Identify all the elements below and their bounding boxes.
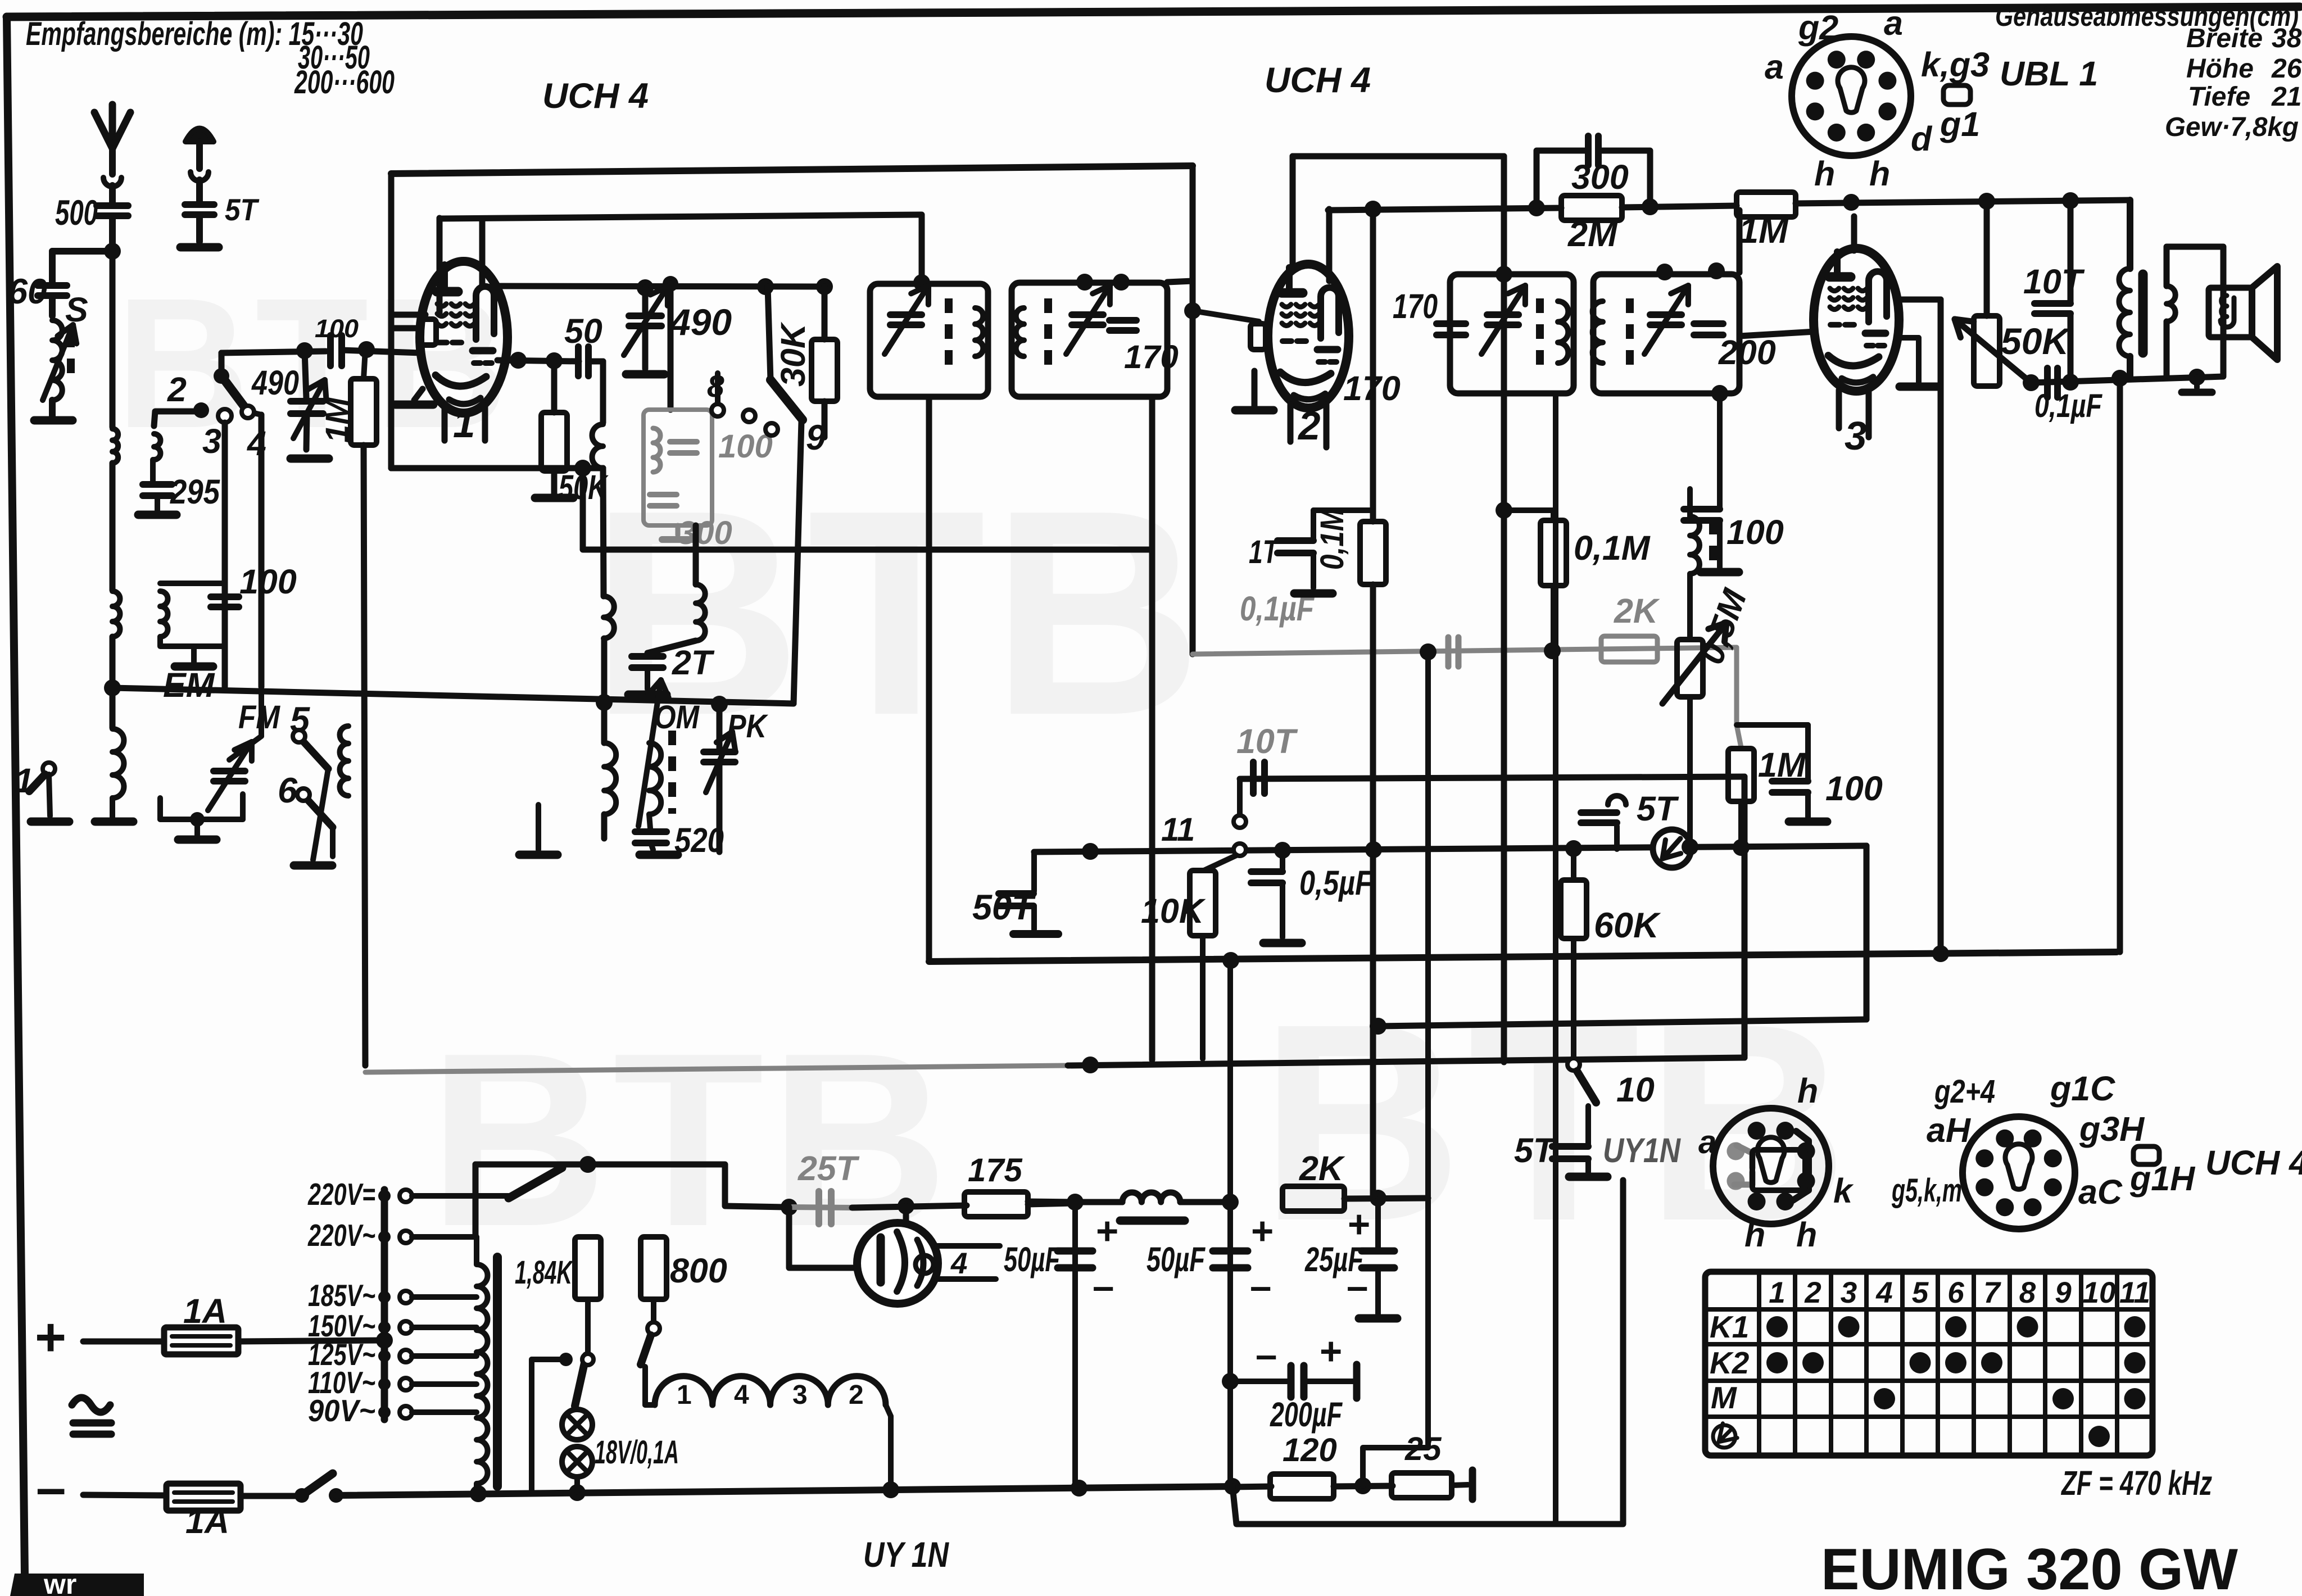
- svg-text:Gew·7,8kg: Gew·7,8kg: [2165, 112, 2299, 142]
- svg-text:500: 500: [55, 193, 98, 233]
- svg-text:220V~: 220V~: [307, 1218, 375, 1253]
- svg-text:OM: OM: [654, 699, 700, 736]
- svg-text:+: +: [35, 1307, 66, 1367]
- svg-text:6: 6: [278, 771, 298, 810]
- svg-text:8: 8: [2019, 1276, 2036, 1309]
- svg-text:2M: 2M: [1567, 215, 1618, 254]
- svg-text:4: 4: [734, 1380, 749, 1410]
- svg-text:0,1µF: 0,1µF: [2034, 388, 2102, 424]
- svg-text:g2+4: g2+4: [1934, 1073, 1995, 1110]
- svg-text:0,1M: 0,1M: [1314, 507, 1351, 570]
- svg-text:+: +: [1320, 1330, 1342, 1373]
- svg-text:h: h: [1796, 1216, 1817, 1254]
- svg-text:g3H: g3H: [2079, 1110, 2145, 1148]
- svg-text:k: k: [1833, 1172, 1854, 1210]
- svg-text:–: –: [1256, 1333, 1277, 1376]
- svg-text:1: 1: [677, 1380, 692, 1410]
- svg-text:0,1M: 0,1M: [1574, 529, 1651, 567]
- svg-text:100: 100: [239, 563, 297, 601]
- svg-text:4: 4: [1875, 1276, 1892, 1309]
- svg-text:h: h: [1744, 1216, 1765, 1254]
- svg-text:10T: 10T: [2023, 262, 2085, 301]
- svg-text:295: 295: [170, 473, 220, 511]
- svg-text:7: 7: [1983, 1276, 2001, 1309]
- svg-text:1M: 1M: [1739, 211, 1789, 251]
- svg-text:+: +: [1348, 1203, 1370, 1246]
- svg-text:170: 170: [1124, 339, 1179, 375]
- svg-text:1: 1: [453, 402, 475, 446]
- svg-text:h: h: [1869, 155, 1890, 193]
- svg-text:3: 3: [1841, 1276, 1857, 1309]
- svg-text:5T: 5T: [1637, 790, 1679, 828]
- svg-text:5T: 5T: [225, 192, 260, 227]
- svg-text:–: –: [1250, 1264, 1271, 1308]
- svg-text:K2: K2: [1710, 1345, 1750, 1380]
- svg-text:9: 9: [806, 418, 826, 457]
- svg-text:100: 100: [1825, 769, 1883, 808]
- svg-text:800: 800: [670, 1252, 727, 1290]
- svg-text:UY 1N: UY 1N: [863, 1535, 949, 1575]
- svg-text:a: a: [1884, 4, 1903, 42]
- svg-text:ZF = 470 kHz: ZF = 470 kHz: [2061, 1464, 2213, 1502]
- svg-text:aC: aC: [2078, 1173, 2123, 1211]
- svg-text:S: S: [65, 291, 88, 329]
- svg-text:aH: aH: [1927, 1111, 1972, 1149]
- svg-text:UCH 4: UCH 4: [2205, 1144, 2302, 1182]
- svg-text:1A: 1A: [183, 1292, 227, 1330]
- svg-text:490: 490: [669, 301, 732, 343]
- svg-text:UBL 1: UBL 1: [2000, 55, 2098, 93]
- svg-text:60: 60: [8, 272, 47, 311]
- svg-text:1A: 1A: [185, 1502, 229, 1540]
- svg-text:25T: 25T: [797, 1149, 860, 1187]
- svg-text:FM: FM: [238, 699, 280, 736]
- svg-text:k,g3: k,g3: [1921, 46, 1990, 84]
- svg-text:g1: g1: [1940, 105, 1980, 143]
- svg-text:2K: 2K: [1614, 592, 1660, 630]
- svg-text:d: d: [1911, 120, 1933, 158]
- svg-text:200: 200: [1718, 333, 1776, 371]
- svg-text:38: 38: [2272, 24, 2302, 53]
- svg-text:g5,k,m: g5,k,m: [1891, 1172, 1962, 1209]
- svg-text:9: 9: [2055, 1276, 2072, 1309]
- svg-text:2: 2: [167, 370, 187, 409]
- svg-text:200···600: 200···600: [294, 64, 395, 101]
- svg-text:10T: 10T: [1236, 722, 1298, 760]
- svg-text:Höhe: Höhe: [2186, 54, 2254, 84]
- svg-text:EUMIG 320 GW: EUMIG 320 GW: [1821, 1537, 2238, 1596]
- svg-text:–: –: [1347, 1264, 1368, 1308]
- svg-text:–: –: [36, 1458, 66, 1518]
- svg-text:g1H: g1H: [2129, 1159, 2196, 1198]
- svg-text:+: +: [1096, 1209, 1118, 1253]
- svg-text:UY1N: UY1N: [1603, 1131, 1682, 1169]
- svg-text:PK: PK: [727, 708, 769, 745]
- svg-text:220V=: 220V=: [307, 1177, 375, 1212]
- svg-text:g2: g2: [1798, 8, 1838, 47]
- svg-text:30K: 30K: [774, 321, 812, 387]
- svg-text:2: 2: [1804, 1276, 1821, 1309]
- svg-text:5: 5: [1912, 1276, 1929, 1309]
- svg-text:1,84K: 1,84K: [515, 1254, 574, 1291]
- svg-text:UCH 4: UCH 4: [1265, 61, 1371, 100]
- svg-text:Breite: Breite: [2186, 24, 2263, 53]
- svg-text:a: a: [1698, 1124, 1716, 1160]
- svg-text:Tiefe: Tiefe: [2188, 82, 2250, 112]
- svg-text:90V~: 90V~: [308, 1393, 375, 1428]
- svg-text:g1C: g1C: [2050, 1069, 2115, 1108]
- svg-text:h: h: [1814, 155, 1835, 193]
- svg-text:4: 4: [950, 1247, 967, 1280]
- svg-text:1: 1: [1769, 1276, 1785, 1309]
- svg-text:60K: 60K: [1594, 906, 1661, 945]
- svg-text:18V/0,1A: 18V/0,1A: [595, 1434, 679, 1471]
- svg-text:5T: 5T: [1514, 1131, 1557, 1169]
- svg-text:200µF: 200µF: [1270, 1395, 1343, 1434]
- svg-text:120: 120: [1283, 1432, 1337, 1468]
- svg-text:170: 170: [1393, 287, 1438, 325]
- svg-text:11: 11: [2119, 1276, 2150, 1309]
- svg-text:1T: 1T: [1249, 534, 1280, 570]
- svg-text:+: +: [1251, 1209, 1274, 1253]
- svg-text:10K: 10K: [1141, 892, 1206, 930]
- svg-text:185V~: 185V~: [308, 1278, 375, 1313]
- svg-text:100: 100: [315, 314, 359, 343]
- svg-text:3: 3: [1845, 414, 1867, 459]
- svg-text:2: 2: [1297, 404, 1321, 448]
- svg-text:50µF: 50µF: [1004, 1240, 1061, 1278]
- svg-text:2T: 2T: [672, 643, 715, 682]
- svg-text:50: 50: [564, 312, 602, 350]
- svg-text:2K: 2K: [1299, 1149, 1345, 1187]
- svg-text:10: 10: [2083, 1276, 2116, 1309]
- svg-text:a: a: [1765, 48, 1784, 86]
- svg-text:1M: 1M: [319, 397, 356, 443]
- svg-text:0,5µF: 0,5µF: [1299, 864, 1373, 902]
- svg-text:50T: 50T: [972, 888, 1036, 927]
- svg-text:175: 175: [968, 1152, 1023, 1189]
- svg-text:K1: K1: [1710, 1309, 1749, 1344]
- svg-text:h: h: [1797, 1072, 1818, 1110]
- svg-text:2: 2: [849, 1380, 864, 1410]
- svg-text:EM: EM: [163, 666, 215, 704]
- svg-text:6: 6: [1947, 1276, 1964, 1309]
- svg-text:11: 11: [1161, 811, 1195, 848]
- svg-text:10: 10: [1616, 1071, 1655, 1109]
- svg-text:50µF: 50µF: [1147, 1240, 1206, 1278]
- svg-text:490: 490: [251, 364, 299, 402]
- svg-text:300: 300: [678, 515, 732, 551]
- svg-text:3: 3: [202, 422, 221, 460]
- svg-text:3: 3: [792, 1380, 808, 1410]
- svg-text:wr: wr: [43, 1568, 76, 1596]
- svg-text:UCH 4: UCH 4: [542, 76, 649, 116]
- svg-text:50K: 50K: [2001, 320, 2071, 362]
- svg-text:–: –: [1093, 1264, 1114, 1308]
- svg-text:300: 300: [1571, 158, 1629, 196]
- svg-text:21: 21: [2271, 82, 2301, 112]
- svg-text:26: 26: [2271, 54, 2302, 84]
- svg-text:100: 100: [1726, 513, 1784, 551]
- svg-text:M: M: [1711, 1380, 1737, 1415]
